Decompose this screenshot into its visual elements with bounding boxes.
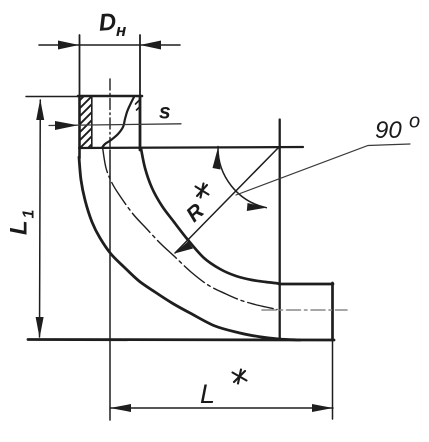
svg-text:90: 90 [375,117,402,144]
svg-text:1: 1 [21,210,38,219]
svg-text:o: o [409,111,420,133]
svg-text:D: D [98,9,117,37]
svg-text:s: s [159,101,171,124]
svg-text:н: н [116,21,126,40]
svg-text:L: L [200,379,215,409]
svg-text:L: L [6,220,33,235]
